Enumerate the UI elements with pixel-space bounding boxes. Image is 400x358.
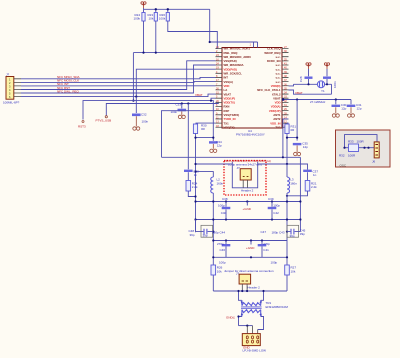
svg-text:VBAT: VBAT (295, 91, 303, 95)
svg-text:J?: J? (237, 166, 241, 170)
svg-text:C42: C42 (273, 211, 279, 215)
svg-text:180p C44: 180p C44 (212, 230, 225, 234)
svg-text:Y1: Y1 (321, 89, 325, 93)
svg-text:100n: 100n (333, 81, 337, 88)
svg-text:Header 2: Header 2 (248, 286, 261, 290)
svg-text:OSC: OSC (340, 163, 347, 167)
svg-text:LPJ-B-SMD LOW: LPJ-B-SMD LOW (243, 348, 267, 352)
svg-text:C33: C33 (176, 103, 182, 107)
svg-text:VDD(D): VDD(D) (271, 84, 281, 88)
svg-text:100k: 100k (159, 17, 166, 21)
svg-text:12p: 12p (357, 107, 362, 111)
svg-text:100MIL-6P?: 100MIL-6P? (3, 101, 20, 105)
svg-text:2.2k: 2.2k (192, 185, 198, 189)
svg-text:PTVS_USB: PTVS_USB (96, 118, 112, 122)
svg-text:TVDD_IN: TVDD_IN (224, 117, 236, 121)
svg-text:10k: 10k (217, 269, 222, 273)
svg-text:C40: C40 (221, 211, 227, 215)
svg-text:C46: C46 (220, 248, 226, 252)
svg-text:39p: 39p (190, 233, 195, 237)
svg-text:RST3: RST3 (78, 125, 86, 129)
svg-text:R33: R33 (348, 140, 354, 144)
svg-text:Jumper for direct antenna conn: Jumper for direct antenna connection (224, 269, 274, 273)
svg-text:C32: C32 (141, 113, 147, 117)
svg-text:J?: J? (6, 73, 10, 77)
svg-text:100p: 100p (273, 203, 280, 207)
svg-text:TX2: TX2 (275, 125, 281, 129)
svg-text:39p: 39p (300, 232, 305, 236)
svg-text:C41: C41 (263, 248, 269, 252)
svg-text:C28: C28 (299, 76, 303, 82)
svg-text:270p: 270p (217, 242, 224, 246)
svg-text:VDD: VDD (224, 84, 230, 88)
svg-text:160n: 160n (217, 181, 224, 185)
svg-text:+GND: +GND (246, 246, 255, 250)
svg-text:12p: 12p (303, 145, 308, 149)
svg-text:J6: J6 (372, 160, 376, 164)
svg-text:EN9120B0V10M: EN9120B0V10M (266, 305, 289, 309)
svg-text:GND((: GND(( (226, 315, 235, 319)
svg-text:180p C43: 180p C43 (272, 230, 285, 234)
svg-text:100n: 100n (142, 120, 149, 124)
svg-text:12p: 12p (341, 107, 346, 111)
svg-text:39p: 39p (290, 234, 295, 238)
svg-text:C39: C39 (268, 197, 274, 201)
svg-text:100R: 100R (357, 140, 365, 144)
svg-text:VDD_IN: VDD_IN (270, 121, 280, 125)
svg-text:100R: 100R (348, 154, 356, 158)
svg-text:10k: 10k (291, 269, 296, 273)
svg-text:10k: 10k (149, 17, 154, 21)
svg-text:VSS(TX): VSS(TX) (224, 125, 235, 129)
svg-text:160n: 160n (290, 181, 297, 185)
svg-text:270p: 270p (263, 242, 270, 246)
svg-text:(Chip antenna 54x27mm): (Chip antenna 54x27mm) (228, 162, 262, 166)
svg-text:27.120MHz: 27.120MHz (310, 100, 326, 104)
svg-text:100k: 100k (134, 17, 141, 21)
svg-text:1n: 1n (194, 173, 198, 177)
svg-text:C47: C47 (261, 230, 267, 234)
svg-text:100p: 100p (271, 260, 278, 264)
svg-text:VDD(TX): VDD(TX) (224, 101, 235, 105)
svg-text:VDD(PAD): VDD(PAD) (224, 67, 238, 71)
svg-text:1n: 1n (313, 173, 317, 177)
svg-text:VDD(UP): VDD(UP) (269, 109, 281, 113)
svg-text:2.2k: 2.2k (311, 185, 317, 189)
svg-text:R32: R32 (339, 154, 345, 158)
svg-text:12p: 12p (217, 143, 222, 147)
svg-text:VBAT: VBAT (195, 93, 203, 97)
svg-text:100p: 100p (219, 260, 226, 264)
svg-text:+GND: +GND (243, 207, 252, 211)
svg-text:NFC DWL_REQ: NFC DWL_REQ (57, 89, 80, 93)
svg-text:C38: C38 (222, 197, 228, 201)
svg-text:Header 2: Header 2 (241, 188, 254, 192)
svg-text:100p: 100p (218, 203, 225, 207)
svg-text:PN7160B1HN/C100Y: PN7160B1HN/C100Y (236, 132, 265, 136)
svg-text:39p: 39p (203, 234, 208, 238)
